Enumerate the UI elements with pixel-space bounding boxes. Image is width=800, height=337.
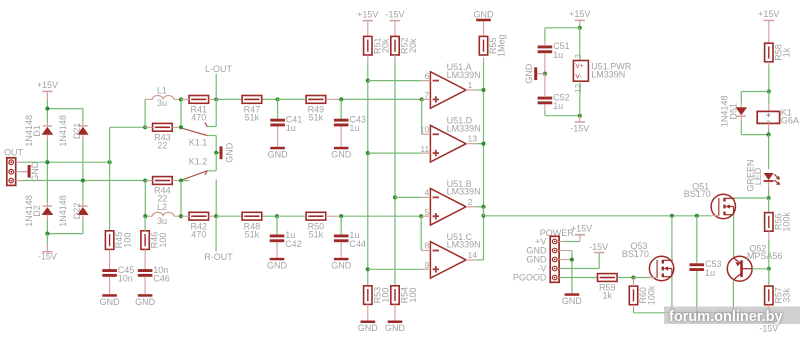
wire OUT pin1 row [21,161,110,163]
capacitor C53 [690,216,722,313]
wire L row to opamp [216,98,422,100]
resistor R44 [145,177,181,204]
node D21/D22 tap [81,178,85,182]
diode D21 [58,115,89,147]
svg-text:GND: GND [267,260,288,270]
ground below R53 [358,321,379,334]
svg-text:20k: 20k [381,38,391,53]
node R41 right [214,97,218,101]
svg-text:-15V: -15V [38,251,57,261]
wire pin7-pin10 tie [421,99,423,134]
svg-text:7: 7 [424,90,429,100]
svg-text:GND: GND [358,323,379,333]
svg-text:OUT: OUT [4,148,24,158]
node R50 right [339,214,343,218]
resistor R52 [391,36,418,55]
ground below C46 [135,294,156,307]
svg-text:LM339N: LM339N [447,187,481,197]
resistor R53 [364,286,391,321]
resistor R50 [277,212,341,239]
wire Q53 source [671,277,673,313]
resistor R46 [141,231,168,270]
resistor R54 [391,286,418,321]
diode D51 [720,96,748,128]
wire D2 top [46,162,48,202]
resistor R60 [629,278,656,313]
svg-text:20k: 20k [408,38,418,53]
wire R44 legs down [145,181,181,217]
svg-text:-15V: -15V [570,124,589,134]
node R57 rail [767,311,771,315]
wire C41 gnd [277,126,279,146]
svg-text:V+: V+ [575,63,583,70]
node L2 left [143,214,147,218]
svg-text:8: 8 [424,241,429,251]
node R59/R60/gate [631,275,635,279]
svg-text:470: 470 [191,229,206,239]
resistor R48 [242,212,262,239]
svg-text:D21: D21 [72,123,82,140]
svg-text:6: 6 [424,71,429,81]
wire C46 to gnd [144,277,146,294]
svg-text:22: 22 [157,141,167,151]
wire Q52 collector [732,280,734,313]
node R44 right [179,178,183,182]
svg-text:+15V: +15V [357,9,378,19]
node R52/pin4 [393,195,397,199]
svg-text:100k: 100k [646,285,656,305]
svg-text:100: 100 [381,288,391,303]
watermark band [664,307,800,325]
svg-text:GND: GND [331,149,352,159]
diode D22 [58,195,89,227]
node out1 [481,88,485,92]
svg-text:1k: 1k [782,47,792,57]
ground below R54 [385,321,406,334]
wire R46 drop [144,216,146,231]
wire C52 bottom [545,104,580,115]
svg-text:G6A: G6A [781,115,799,125]
inductor L1 [145,86,181,108]
op-amp U51.A [422,62,481,108]
wire D22 top [82,181,84,203]
svg-text:51k: 51k [309,113,324,123]
wire L1 left leg [144,99,146,127]
svg-text:+15V: +15V [37,80,58,90]
wire riser to R43 row [110,127,146,162]
node pwr bottom [578,114,582,118]
svg-text:LM339N: LM339N [447,124,481,134]
wire outputs bus [476,58,483,260]
capacitor C41 [270,99,302,133]
node R49 right [339,97,343,101]
node R47 right [276,97,280,101]
resistor R57 [765,269,792,321]
svg-text:100k: 100k [782,212,792,232]
wire pin4 [395,196,422,198]
svg-text:100: 100 [122,233,132,248]
svg-text:D51: D51 [728,103,738,120]
resistor R45 [105,231,132,270]
wire +15V to D1/D21 [47,109,83,122]
ground below C45 [100,294,121,307]
wire C45 to gnd [109,277,111,294]
connector J1 OUT [4,148,28,186]
wire OUT pin3 row [21,180,145,182]
wire pin11 [368,152,422,154]
wire Q52 base [752,268,769,270]
ground above R55 [474,9,495,36]
svg-text:1u: 1u [553,50,563,60]
svg-text:33k: 33k [782,288,792,303]
ground below C42 [267,258,288,271]
resistor R59 [598,274,634,301]
power +15V at POWER [559,224,592,242]
node R44 left [143,178,147,182]
node R48 right [275,214,279,218]
diode D1 [24,115,53,147]
svg-text:51k: 51k [309,229,324,239]
ground GND at relay common [216,142,234,163]
node Q53 source rail [670,311,674,315]
wire Q53 drain [671,216,673,260]
resistor R55 [479,34,506,57]
resistor R49 [278,96,342,123]
svg-text:2: 2 [468,197,473,207]
svg-text:1: 1 [468,80,473,90]
svg-text:BS170: BS170 [622,249,649,259]
svg-text:11: 11 [420,144,429,154]
wire Q51 source [733,215,735,258]
wire pin9 [368,268,422,270]
wire D51 bottom [741,116,768,135]
wire D1 to row [46,140,48,162]
svg-text:100: 100 [408,288,418,303]
wire C42 gnd [276,242,278,258]
svg-text:3: 3 [574,53,583,58]
op-amp U51.C [422,232,481,278]
power +15V above R51 [357,9,378,36]
node +15V junction [45,107,49,111]
node pin5 junction [419,214,423,218]
wire L1 right leg [180,99,182,127]
svg-text:PGOOD: PGOOD [513,272,547,282]
ground below C44 [331,258,352,271]
svg-text:4: 4 [424,188,429,198]
capacitor C42 [270,216,302,249]
power -15V above R52 [385,9,404,36]
svg-text:LM339N: LM339N [591,69,625,79]
svg-text:100: 100 [158,233,168,248]
svg-text:1N4148: 1N4148 [58,195,68,227]
node Q52 collector rail [731,311,735,315]
svg-text:LED: LED [753,167,763,185]
svg-text:+15V: +15V [571,224,592,234]
svg-text:D2: D2 [32,205,42,217]
resistor R43 [145,123,181,150]
power -15V below U51.PWR [570,116,589,134]
node Q53 drain tap [670,214,674,218]
wire C51 top [545,28,580,45]
inductor L2 [145,202,181,226]
svg-text:10n: 10n [118,274,133,284]
node Q52 base [767,267,771,271]
node K1 bottom [767,133,771,137]
svg-text:9: 9 [424,260,429,270]
node POWER gnd [570,257,574,261]
wire K1.2 blade drop [215,180,217,217]
wire C51-C52 link [544,53,546,73]
ground GND at OUT pin2 [28,161,40,182]
capacitor C44 [334,216,366,249]
svg-text:GND: GND [30,161,40,182]
node R51/pin9 [366,267,370,271]
svg-text:GND: GND [135,297,156,307]
resistor R41 [181,96,216,123]
node relay common gnd [214,151,218,155]
wire Q51 drain rail [735,197,769,199]
wire R52 divider [394,55,396,286]
wire POWER gnd pins [559,251,572,294]
transistor Q51 BS170 [684,182,736,219]
svg-text:GND: GND [385,323,406,333]
node L2 right [179,214,183,218]
node R58 bottom [767,89,771,93]
wire pin5-pin8 tie [420,216,422,250]
svg-text:3u: 3u [157,98,167,108]
svg-text:-15V: -15V [759,323,778,333]
transistor Q52 MPSA56 [727,243,782,281]
svg-text:12: 12 [574,83,583,92]
svg-text:C46: C46 [153,274,170,284]
node R42 right [214,214,218,218]
ground GND beside C51 [524,63,545,84]
relay contact K1.1 [182,99,216,152]
svg-text:forum.onliner.by: forum.onliner.by [669,309,783,325]
svg-text:GND: GND [474,9,495,19]
svg-text:-15V: -15V [385,9,404,19]
node pwr top [578,26,582,30]
label L-OUT [205,64,233,100]
node R41 left [179,97,183,101]
resistor R58 [765,43,792,91]
svg-text:5: 5 [424,207,429,217]
op-amp U51.B [422,179,481,225]
svg-text:1u: 1u [705,268,715,278]
svg-text:R-OUT: R-OUT [204,252,233,262]
svg-text:1k: 1k [603,291,613,301]
svg-text:51k: 51k [245,229,260,239]
svg-text:3u: 3u [157,216,167,226]
svg-text:GND: GND [562,296,583,306]
power -15V at POWER [559,242,608,269]
led GREEN LED [746,135,780,198]
power -15V below R57 [759,321,778,333]
wire PGOOD to R59 [559,277,597,279]
svg-text:1u: 1u [349,123,359,133]
op-amp U51.D [420,116,481,162]
power -15V left [38,234,57,262]
wire R row to opamp [216,215,421,217]
svg-text:D22: D22 [72,203,82,220]
capacitor C46 [138,265,170,284]
node LED bottom / Q51 drain [767,196,771,200]
svg-text:K1.1: K1.1 [189,138,208,148]
svg-text:D1: D1 [32,125,42,137]
capacitor C52 [538,74,570,111]
node R51/pin6 [366,79,370,83]
wire comparator to gate rail [484,207,712,216]
ground below POWER [562,293,583,306]
wire R45 drop [109,162,111,231]
resistor R42 [181,212,216,239]
wire R51 divider [367,55,369,286]
svg-text:470: 470 [191,113,206,123]
power +15V top-left [37,80,58,109]
relay contact K1.2 [181,153,216,181]
svg-text:1Meg: 1Meg [496,34,506,57]
svg-text:1u: 1u [553,101,563,111]
wire C44 gnd [340,242,342,258]
node R51/pin11 [366,151,370,155]
svg-text:GND: GND [331,260,352,270]
svg-text:LM339N: LM339N [447,70,481,80]
svg-text:+15V: +15V [758,9,779,19]
svg-text:GND: GND [524,63,534,84]
node row3 junction [108,160,112,164]
svg-text:LM339N: LM339N [447,240,481,250]
node R43 right [179,125,183,129]
ic U51.PWR LM339N [573,28,631,116]
svg-text:10: 10 [420,125,430,135]
node C53 rail [695,311,699,315]
svg-text:13: 13 [468,134,478,144]
relay coil K1 G6A [757,92,799,135]
svg-text:V-: V- [575,73,581,80]
power +15V above R58 [758,9,779,43]
svg-text:51k: 51k [245,113,260,123]
wire D51 branch [741,92,769,108]
svg-text:K1.2: K1.2 [189,157,208,167]
svg-text:L1: L1 [157,86,167,96]
node OUT row D1 [45,160,49,164]
ground below C41 [268,147,289,160]
diode D2 [24,195,53,227]
transistor Q53 BS170 [622,241,674,281]
node D2 bottom [45,232,49,236]
wire pin6 [368,80,422,82]
node out13 [481,142,485,146]
capacitor C51 [538,41,570,60]
svg-text:GND: GND [268,149,289,159]
power +15V above U51.PWR [569,9,590,28]
node gate rail start [481,214,485,218]
connector POWER [513,228,574,282]
node pin7 junction [420,97,424,101]
node out2 [481,205,485,209]
svg-text:GND: GND [225,142,235,163]
resistor R56 [765,198,792,269]
svg-text:1N4148: 1N4148 [58,115,68,147]
node R43 left [143,125,147,129]
svg-text:L2: L2 [157,202,167,212]
wire C43 gnd [340,126,342,146]
ground below C43 [331,147,352,160]
node gnd link [543,72,547,76]
resistor R47 [242,96,262,123]
svg-text:MPSA56: MPSA56 [747,251,783,261]
capacitor C43 [334,99,366,133]
svg-text:14: 14 [468,250,478,260]
svg-text:-15V: -15V [589,242,608,252]
wire D2/D22 bottoms [47,220,83,234]
svg-text:L-OUT: L-OUT [205,64,233,74]
svg-text:C44: C44 [349,239,366,249]
wire -15V rail [634,312,770,314]
svg-text:+15V: +15V [569,9,590,19]
svg-text:BS170: BS170 [684,189,711,199]
capacitor C45 [102,265,134,284]
svg-text:C42: C42 [285,239,302,249]
svg-text:GND: GND [100,297,121,307]
svg-text:1u: 1u [286,123,296,133]
wire gate Q53 [634,277,651,279]
label R-OUT [204,216,233,262]
resistor R51 [364,36,391,55]
node C53 tap [695,214,699,218]
wire D21 down to row4 [82,140,84,181]
